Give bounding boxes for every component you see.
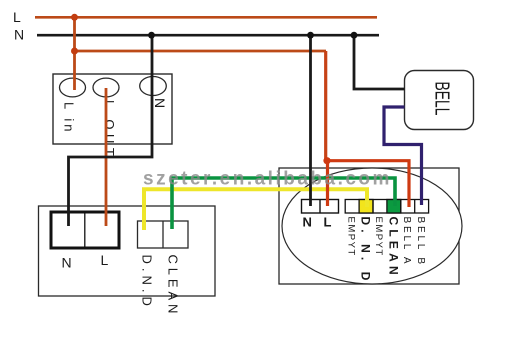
svg-text:CLEAN: CLEAN bbox=[166, 255, 181, 318]
wire N drop through terminal to block N bbox=[69, 35, 153, 226]
svg-text:L: L bbox=[13, 9, 21, 25]
terminal L out bbox=[93, 78, 119, 97]
svg-text:D. N. D: D. N. D bbox=[359, 217, 373, 285]
terminal N bbox=[140, 77, 167, 96]
doorbell unit box bbox=[279, 168, 459, 284]
wire CLEAN (green) bbox=[172, 178, 395, 229]
svg-text:N: N bbox=[303, 215, 312, 230]
pin CLEAN pad (green) bbox=[387, 200, 401, 214]
wire L rail bbox=[35, 16, 377, 19]
wire D.N.D (yellow) bbox=[144, 189, 367, 230]
svg-text:N: N bbox=[14, 27, 24, 43]
top-left terminal box bbox=[53, 74, 172, 144]
terminal block N/L bbox=[51, 212, 119, 248]
svg-text:CLEAN: CLEAN bbox=[387, 217, 401, 279]
wire to doorbell L (lower) bbox=[326, 160, 329, 206]
svg-text:L in: L in bbox=[62, 102, 77, 134]
junction dot N rail 1 bbox=[148, 32, 155, 39]
svg-text:BELL: BELL bbox=[431, 82, 453, 116]
terminal block N/L (doorbell) bbox=[302, 200, 339, 214]
junction dot N rail 2 bbox=[307, 32, 314, 39]
svg-text:N: N bbox=[62, 255, 72, 271]
svg-text:L: L bbox=[324, 215, 332, 230]
wire L in drop bbox=[73, 17, 76, 90]
svg-text:L: L bbox=[101, 252, 109, 268]
svg-text:L OUT: L OUT bbox=[102, 100, 117, 160]
svg-text:szeter.en.alibaba.com: szeter.en.alibaba.com bbox=[143, 169, 392, 190]
wire to BELL A bbox=[328, 161, 410, 207]
svg-text:BELL B: BELL B bbox=[415, 217, 426, 267]
wire N rail to bell bbox=[354, 35, 405, 89]
svg-text:D.N.D: D.N.D bbox=[140, 255, 155, 310]
junction dot N rail 3 bbox=[351, 32, 358, 39]
wire L branch rail bbox=[74, 50, 326, 53]
junction dot L branch bbox=[71, 48, 78, 55]
junction dot L rail bbox=[71, 14, 78, 21]
wire N rail bbox=[37, 34, 379, 37]
wire N rail to doorbell N bbox=[309, 35, 312, 206]
terminal L in bbox=[60, 78, 86, 97]
pin D.N.D pad (yellow) bbox=[359, 200, 373, 214]
wire L branch to doorbell L bbox=[324, 51, 327, 161]
wire bell to BELL B (navy) bbox=[384, 107, 422, 205]
bell box bbox=[405, 71, 474, 130]
terminal block 6-pin (doorbell) bbox=[345, 200, 428, 214]
doorbell unit ellipse bbox=[282, 168, 462, 284]
terminal block DND/CLEAN bbox=[138, 221, 189, 248]
svg-text:BELL A: BELL A bbox=[401, 217, 412, 267]
bottom-left unit box bbox=[39, 206, 216, 296]
svg-text:EMPYT: EMPYT bbox=[345, 217, 356, 257]
wire L out to block L bbox=[105, 88, 108, 226]
svg-text:EMPYT: EMPYT bbox=[373, 217, 384, 257]
junction dot L split bbox=[323, 157, 330, 164]
svg-text:N: N bbox=[152, 98, 168, 108]
